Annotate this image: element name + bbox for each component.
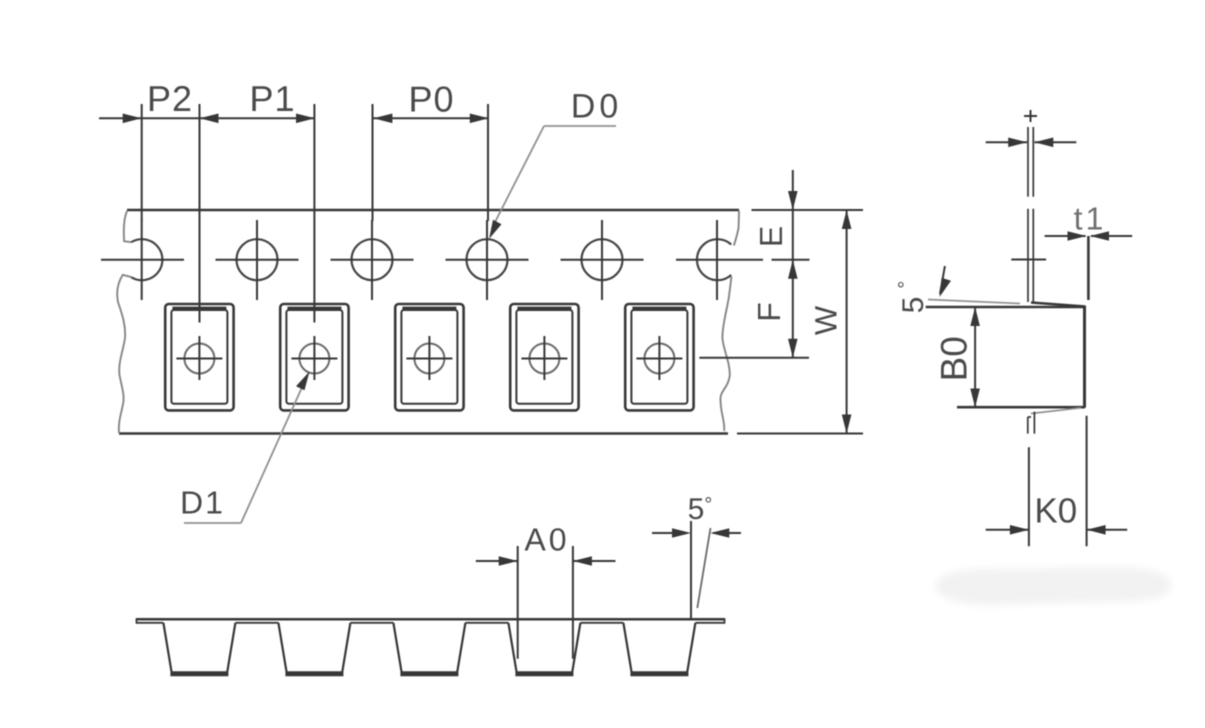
label D0 with leader bbox=[574, 94, 617, 118]
TOPVIEW bbox=[99, 86, 863, 523]
sprocket hole 5 bbox=[582, 239, 623, 280]
label D1 with leader bbox=[183, 492, 222, 514]
sprocket hole centerline mark bbox=[1011, 259, 1046, 261]
SECTIONVIEW bbox=[898, 110, 1171, 605]
sprocket hole 2 bbox=[237, 239, 278, 280]
label A0 bbox=[525, 528, 566, 551]
sprocket hole 1 (broken by tape edge) bbox=[131, 239, 162, 280]
sprocket hole 6 (broken by tape edge) bbox=[697, 239, 731, 280]
SIDEVIEW bbox=[136, 497, 741, 674]
centerline pocket5 right bbox=[699, 357, 809, 359]
right break line (wavy tape edge) bbox=[720, 211, 739, 432]
tape middle segment bbox=[1027, 209, 1029, 302]
B0 top extension line bbox=[926, 306, 1085, 308]
label E bbox=[760, 227, 782, 244]
label 5deg rotated bbox=[898, 282, 923, 312]
dimension B0 bbox=[974, 307, 976, 408]
label 5deg side bbox=[689, 497, 711, 519]
5deg slant extension bbox=[928, 300, 1020, 304]
pocket 4 bbox=[510, 304, 578, 410]
extension line hole1 bbox=[141, 104, 143, 221]
label B0 bbox=[941, 338, 967, 379]
pocket section right wall bbox=[1083, 306, 1086, 408]
side pocket 2 bbox=[278, 623, 350, 673]
side pocket 1 bbox=[163, 623, 235, 673]
extension line hole4 bbox=[487, 104, 489, 221]
pocket 1 bbox=[165, 304, 233, 410]
pocket section bottom wall bbox=[957, 406, 1085, 409]
dimension t arrows bbox=[986, 141, 1027, 143]
pocket 2 bbox=[280, 304, 348, 410]
sprocket hole 3 bbox=[352, 239, 393, 280]
pocket section top wall bbox=[1031, 303, 1085, 307]
tape top edge bbox=[127, 209, 739, 211]
tape bottom surface segments bbox=[137, 622, 164, 624]
pocket 3 bbox=[395, 304, 463, 410]
left break line (wavy tape edge) bbox=[117, 211, 131, 433]
dimension line E F bbox=[792, 170, 794, 358]
dimension line W bbox=[846, 210, 848, 434]
extension line hole3 bbox=[372, 104, 374, 221]
label K0 bbox=[1037, 498, 1076, 523]
extension line tape bottom edge right bbox=[737, 433, 863, 435]
dimension A0 bbox=[517, 546, 519, 659]
label F bbox=[758, 304, 780, 320]
label P0 bbox=[411, 86, 452, 112]
extension line tape top edge right bbox=[752, 209, 864, 211]
side pocket 4 bbox=[508, 623, 580, 673]
label P1 bbox=[252, 86, 292, 111]
dimension K0 bbox=[986, 529, 1029, 531]
label W bbox=[815, 306, 836, 335]
dimension line P0 bbox=[373, 117, 488, 119]
tape lower segment bbox=[1028, 412, 1035, 434]
t thickness mark bbox=[1024, 115, 1037, 117]
dimension t1 bbox=[1045, 235, 1086, 237]
sprocket hole 4 bbox=[467, 239, 508, 280]
extension line pocket1 bbox=[199, 104, 201, 323]
tape top surface bbox=[136, 618, 725, 621]
side pocket 5 bbox=[623, 623, 695, 673]
centerline dash sprocket right bbox=[772, 259, 810, 261]
pocket 5 bbox=[625, 304, 693, 410]
side pocket 3 bbox=[393, 623, 465, 673]
5deg arrow bbox=[940, 266, 945, 294]
label t1 bbox=[1074, 208, 1102, 230]
dimension 5deg side bbox=[690, 521, 692, 619]
tape bottom edge bbox=[119, 432, 728, 434]
tape upper segment bbox=[1027, 127, 1029, 197]
dimension line P2 P1 bbox=[99, 117, 315, 119]
extension line pocket2 bbox=[313, 104, 315, 323]
label P2 bbox=[150, 86, 190, 111]
faint shadow blob bbox=[935, 567, 1171, 605]
K0 extension lines bbox=[1028, 447, 1030, 546]
